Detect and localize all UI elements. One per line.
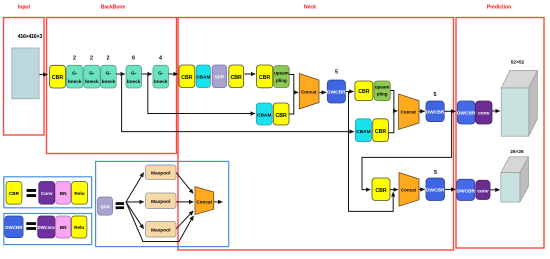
svg-text:CBR: CBR <box>52 75 63 81</box>
block CBR bottom <box>372 178 390 201</box>
legend block Conv <box>39 182 55 205</box>
wire conv to cube 26 <box>490 189 499 191</box>
wire CBR2 to CBR3 <box>244 73 255 75</box>
svg-text:bneck: bneck <box>127 79 141 84</box>
svg-text:Concat: Concat <box>401 110 417 115</box>
svg-text:Maxpool: Maxpool <box>151 170 170 176</box>
cube 52x52 <box>501 71 537 137</box>
region frame Neck <box>178 18 454 251</box>
wire SPP split to Maxpool3 <box>126 202 144 229</box>
block G-bneck 4 <box>126 65 142 88</box>
legend block DWConv <box>38 216 56 238</box>
svg-text:CBR: CBR <box>181 75 192 81</box>
wire upsampling2 to concat2 merge <box>390 91 394 111</box>
concat legend <box>195 187 214 215</box>
concat C3 <box>399 173 419 207</box>
concat C2 <box>399 94 419 130</box>
legend block SPP <box>98 197 113 215</box>
block G-bneck 5 <box>153 65 169 88</box>
block CBR neck row2 <box>273 103 289 125</box>
svg-text:DWCBR: DWCBR <box>327 90 346 96</box>
svg-text:CBR: CBR <box>9 191 20 196</box>
svg-text:pling: pling <box>377 92 388 97</box>
block CBAM neck row1 <box>196 65 210 88</box>
svg-text:26×26: 26×26 <box>510 149 524 155</box>
svg-text:BN: BN <box>60 225 67 230</box>
wire SPP split to Maxpool2 <box>126 201 144 203</box>
wire SPP bypass to legend Concat <box>126 202 193 242</box>
svg-text:G-: G- <box>131 71 137 76</box>
equals sign legend2 <box>26 222 36 230</box>
svg-text:CBR: CBR <box>275 113 286 119</box>
svg-text:Concat: Concat <box>196 200 212 205</box>
wire merge into Concat1 <box>294 91 298 93</box>
svg-text:SPP: SPP <box>215 75 225 81</box>
block G-bneck 2 <box>84 65 100 88</box>
svg-text:BN: BN <box>60 191 67 196</box>
svg-text:CBR: CBR <box>358 89 369 95</box>
wire G-bneck3 to G-bneck4 <box>116 73 125 75</box>
svg-text:bneck: bneck <box>154 79 168 84</box>
svg-text:6: 6 <box>132 56 135 62</box>
svg-text:CBAM: CBAM <box>196 75 210 81</box>
block CBAM neck row2 <box>256 103 272 125</box>
svg-text:SPP: SPP <box>100 204 110 210</box>
legend block DWCBR <box>5 216 23 238</box>
legend frame CBR <box>4 177 92 208</box>
wire Concat3 to DWCBR3 <box>419 188 424 190</box>
block Maxpool 2 <box>146 193 177 209</box>
block DWCBR3 <box>426 178 445 201</box>
wire Concat1 to DWCBR1 <box>319 91 326 93</box>
svg-text:CBAM: CBAM <box>257 113 271 119</box>
svg-text:416×416×3: 416×416×3 <box>18 34 43 40</box>
svg-text:Concat: Concat <box>301 90 317 95</box>
svg-text:G-: G- <box>89 71 95 76</box>
svg-text:4: 4 <box>159 56 162 62</box>
wire DWCBR2 to prediction row1 <box>444 110 455 112</box>
svg-text:Concat: Concat <box>401 187 417 192</box>
equals sign legend1 <box>27 189 36 197</box>
svg-text:DWConv: DWConv <box>38 225 56 230</box>
region frame Prediction <box>456 18 544 249</box>
svg-text:G-: G- <box>72 71 78 76</box>
block upsampling 2 <box>374 81 390 101</box>
svg-text:2: 2 <box>90 56 93 62</box>
svg-text:pling: pling <box>276 78 287 83</box>
svg-text:G-: G- <box>106 71 112 76</box>
svg-text:G-: G- <box>158 71 164 76</box>
block DWCBR2 <box>426 101 445 122</box>
wire SPP split to Maxpool1 <box>126 173 144 202</box>
svg-text:CBR: CBR <box>259 75 270 81</box>
svg-text:52×52: 52×52 <box>511 60 525 66</box>
svg-text:DWCBR: DWCBR <box>457 111 476 117</box>
wire merge into Concat2 <box>394 110 398 112</box>
block G-bneck 1 <box>67 65 83 88</box>
block CBR neck row1 <box>179 65 195 88</box>
legend block Relu 2 <box>72 216 87 238</box>
block DWCBR prediction row2 <box>456 179 475 200</box>
svg-text:CBR: CBR <box>375 129 386 135</box>
svg-text:CBR: CBR <box>375 188 386 194</box>
wire Maxpool1 to legend Concat <box>176 173 193 194</box>
wire DWCBR3 to prediction row2 <box>445 188 456 190</box>
wire skip tap2 (after G-bneck4) down to CBAM row2 <box>148 74 255 114</box>
block conv prediction row1 <box>476 101 492 124</box>
legend block BN 2 <box>56 216 71 238</box>
wire Maxpool2 to legend Concat <box>176 201 193 203</box>
legend block BN <box>56 182 71 205</box>
block SPP neck row1 <box>212 65 226 88</box>
svg-text:conv: conv <box>478 112 490 117</box>
block CBR3 neck row1 <box>257 65 273 88</box>
svg-text:Neck: Neck <box>304 5 316 11</box>
svg-text:bneck: bneck <box>102 79 116 84</box>
wire branch junction down to bottom CBR <box>362 111 452 189</box>
block CBAM row3 <box>355 119 371 142</box>
svg-text:CBR: CBR <box>231 75 242 81</box>
wire Maxpool3 to legend Concat <box>176 211 193 229</box>
wire upsampling1 to concat1 merge <box>289 75 294 93</box>
cube 26x26 <box>501 157 529 202</box>
svg-text:2: 2 <box>73 56 76 62</box>
wire CBR bottom to Concat3 <box>390 189 398 191</box>
svg-text:DWCBR: DWCBR <box>426 110 445 116</box>
svg-text:Relu: Relu <box>74 225 84 230</box>
svg-text:upsam: upsam <box>375 84 390 89</box>
block Maxpool 3 <box>146 222 177 238</box>
svg-text:Input: Input <box>18 5 31 11</box>
block G-bneck 3 <box>101 65 117 88</box>
svg-text:5: 5 <box>434 92 437 98</box>
wire bypass DWCBR1 output down to Concat3 <box>349 92 394 212</box>
block conv prediction row2 <box>476 180 490 199</box>
svg-text:5: 5 <box>434 170 437 176</box>
svg-text:Prediction: Prediction <box>487 5 511 11</box>
legend frame DWCBR <box>4 214 92 245</box>
svg-text:Conv: Conv <box>41 191 53 196</box>
wire G-bneck5 to neck CBR <box>169 73 178 75</box>
region frame Input <box>4 18 45 136</box>
block DWCBR1 <box>327 80 346 103</box>
svg-text:5: 5 <box>335 70 338 76</box>
svg-text:Maxpool: Maxpool <box>151 227 170 233</box>
legend block Relu <box>72 182 88 205</box>
legend block CBR <box>6 182 22 205</box>
svg-text:CBAM: CBAM <box>356 129 370 135</box>
region frame BackBone <box>47 18 177 154</box>
concat C1 <box>299 74 319 109</box>
wire legend Concat out <box>214 201 223 203</box>
block CBR2 neck row1 <box>229 65 244 88</box>
svg-text:DWCBR: DWCBR <box>426 188 445 194</box>
svg-text:bneck: bneck <box>85 79 99 84</box>
wire G-bneck4 to G-bneck5 <box>142 73 152 75</box>
legend frame SPP <box>96 161 229 246</box>
wire conv to cube 52 <box>492 110 500 112</box>
svg-text:DWCBR: DWCBR <box>5 225 23 230</box>
block CBR row1b <box>355 81 373 101</box>
svg-text:bneck: bneck <box>68 79 82 84</box>
equals sign SPP <box>116 202 125 209</box>
svg-text:BackBone: BackBone <box>101 5 126 11</box>
wire CBR row3 to concat2 merge <box>389 111 394 133</box>
wire input to CBR <box>40 74 48 76</box>
svg-text:DWCBR: DWCBR <box>456 188 475 194</box>
wire CBR row2 to concat1 merge <box>289 92 294 114</box>
wire skip tap1 (after G-bneck3) down to CBAM row3 <box>122 74 354 132</box>
block Maxpool 1 <box>146 165 177 180</box>
input image block <box>12 48 39 99</box>
block CBR row3 <box>373 119 389 142</box>
wire Concat2 to DWCBR2 <box>419 110 424 112</box>
svg-text:conv: conv <box>477 189 489 194</box>
block CBR backbone <box>50 65 66 88</box>
svg-text:Maxpool: Maxpool <box>151 199 170 205</box>
wire DWCBR1 to CBR row1b <box>346 91 354 93</box>
svg-text:Relu: Relu <box>74 191 84 196</box>
block upsampling 1 <box>274 66 290 88</box>
svg-text:2: 2 <box>107 56 110 62</box>
svg-text:upsam: upsam <box>274 70 289 75</box>
block DWCBR prediction row1 <box>457 101 476 124</box>
